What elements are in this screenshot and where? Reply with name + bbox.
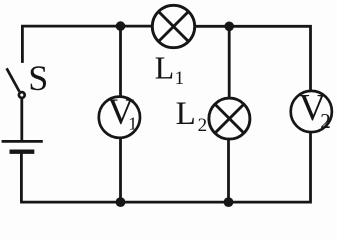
wire left-top vertical (top-left corner down to switch) (22, 26, 151, 63)
lamp L2 (209, 98, 250, 139)
label L1 (155, 50, 185, 89)
wire branch V1 bottom (voltmeter V1 to bottom junction) (119, 138, 122, 202)
wire top-right segment (lamp L1 to top-right corner) (196, 26, 311, 90)
svg-text:L: L (155, 50, 175, 86)
wire branch V1 top (top junction to voltmeter V1) (119, 26, 122, 96)
lamp L1 (152, 5, 194, 47)
wire right-bottom (voltmeter V2 to bottom-right corner) (20, 133, 310, 202)
svg-text:2: 2 (198, 115, 208, 136)
junction node top-left (V1 branch / top wire) (116, 21, 126, 31)
junction node bottom-left (V1 branch / bottom wire) (116, 197, 126, 207)
switch S (7, 68, 25, 98)
svg-text:1: 1 (128, 114, 137, 134)
wire branch L2 top (top junction to lamp L2) (228, 26, 231, 97)
svg-text:S: S (28, 58, 48, 98)
svg-text:1: 1 (175, 68, 185, 89)
label L2 (176, 96, 208, 136)
wire left-bottom (battery to bottom-left corner) (20, 154, 23, 203)
voltmeter V2 (291, 87, 332, 133)
battery B1 (2, 141, 43, 151)
junction node top-right (L2 branch / top wire) (224, 22, 234, 32)
voltmeter V1 (99, 92, 140, 138)
svg-text:2: 2 (320, 109, 331, 133)
junction node bottom-right (L2 branch / bottom wire) (224, 197, 234, 207)
wire branch L2 bottom (lamp L2 to bottom junction) (227, 140, 230, 202)
svg-text:L: L (176, 96, 196, 132)
wire switch to battery (20, 98, 23, 141)
